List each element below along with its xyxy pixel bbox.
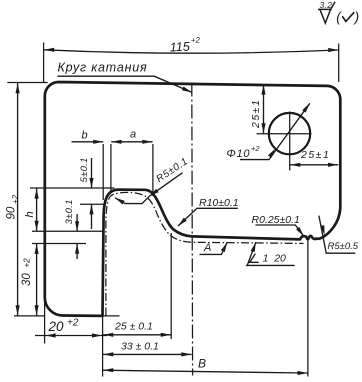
svg-text:+2: +2 (11, 194, 20, 204)
dimension 25±0.1 (103, 334, 171, 336)
svg-text:a: a (130, 129, 136, 141)
leader R10±0.1 (178, 208, 238, 226)
svg-text:R5±0.5: R5±0.5 (328, 241, 359, 252)
svg-text:20: 20 (273, 253, 286, 265)
svg-text:+2: +2 (191, 36, 201, 45)
svg-text:Круг катания: Круг катания (58, 61, 148, 75)
slope 1:20 mark (246, 264, 295, 266)
dimension a (111, 141, 152, 143)
worn profile (dash-dot) (106, 192, 304, 315)
body outline (template profile) (45, 82, 341, 316)
slope angle symbol (250, 254, 259, 263)
svg-text:A: A (203, 242, 211, 254)
svg-text:25 ± 0.1: 25 ± 0.1 (114, 321, 153, 333)
svg-text:33 ± 0.1: 33 ± 0.1 (121, 341, 159, 353)
ext line flange top level (30, 187, 115, 189)
ext line 90 bottom (14, 315, 44, 317)
ext line 115 left (43, 43, 45, 84)
ext line leg left (44, 299, 46, 344)
ext line leg right / flange back (102, 316, 104, 377)
svg-text:30: 30 (21, 273, 33, 286)
dimension 5±0.1 (outside arrows) (91, 158, 93, 188)
dimension b (72, 141, 104, 143)
ext line leg bottom stub (103, 315, 120, 317)
svg-text:b: b (82, 130, 88, 142)
flange notch trapezoid (115, 196, 149, 203)
ext line a right (152, 144, 154, 196)
circle centerline vertical (289, 112, 291, 171)
svg-text:R0.25±0.1: R0.25±0.1 (252, 214, 300, 226)
svg-text:Φ10: Φ10 (227, 148, 251, 160)
leader R5±0.5 (319, 216, 355, 254)
dimension B (103, 370, 308, 373)
dimension 25±1 horizontal (290, 164, 338, 166)
notch arrow (114, 196, 125, 205)
ext line b left (102, 144, 104, 200)
ext line 115 right (338, 44, 340, 83)
ext line worn tread level (32, 243, 86, 245)
ext line tread point (170, 233, 172, 339)
rolling circle axis (dash-dot vertical) (191, 83, 194, 376)
ext line rim face (307, 240, 309, 377)
ext line notch bottom level (80, 203, 103, 205)
svg-text:20: 20 (48, 319, 65, 334)
dimension 33±0.1 (103, 353, 192, 355)
leader R5±0.1 (149, 173, 182, 197)
svg-text:115: 115 (169, 39, 190, 54)
svg-text:+2: +2 (67, 318, 79, 329)
ext line a left (110, 144, 112, 193)
leader R0.25±0.1 (256, 225, 304, 236)
svg-text:1: 1 (263, 253, 269, 265)
svg-text:R10±0.1: R10±0.1 (199, 197, 239, 209)
svg-text:90: 90 (6, 206, 18, 219)
svg-text:+2: +2 (251, 144, 260, 153)
dimension 30+2 (36, 244, 38, 316)
dimension 3±0.1 (outside arrows) (76, 214, 78, 231)
ext line tread level (32, 230, 103, 232)
svg-text:25±1: 25±1 (300, 149, 330, 161)
circle centerline horizontal (257, 133, 312, 135)
svg-text:h: h (24, 211, 36, 217)
svg-text:+2: +2 (23, 258, 32, 268)
leader Ф10+2 (240, 103, 310, 159)
dimension 90+2 left (17, 83, 19, 316)
svg-text:25±1: 25±1 (250, 99, 262, 129)
hole circle (269, 113, 310, 154)
dimension 20+2 (35, 335, 107, 337)
dimension 25±1 vertical (263, 84, 265, 133)
ext line 90 top (7, 82, 47, 84)
svg-text:3±0.1: 3±0.1 (64, 199, 75, 224)
svg-text:В: В (198, 357, 206, 371)
dimension h (36, 188, 38, 231)
svg-text:5±0.1: 5±0.1 (79, 157, 90, 182)
dimension 115+2 top (44, 50, 339, 53)
